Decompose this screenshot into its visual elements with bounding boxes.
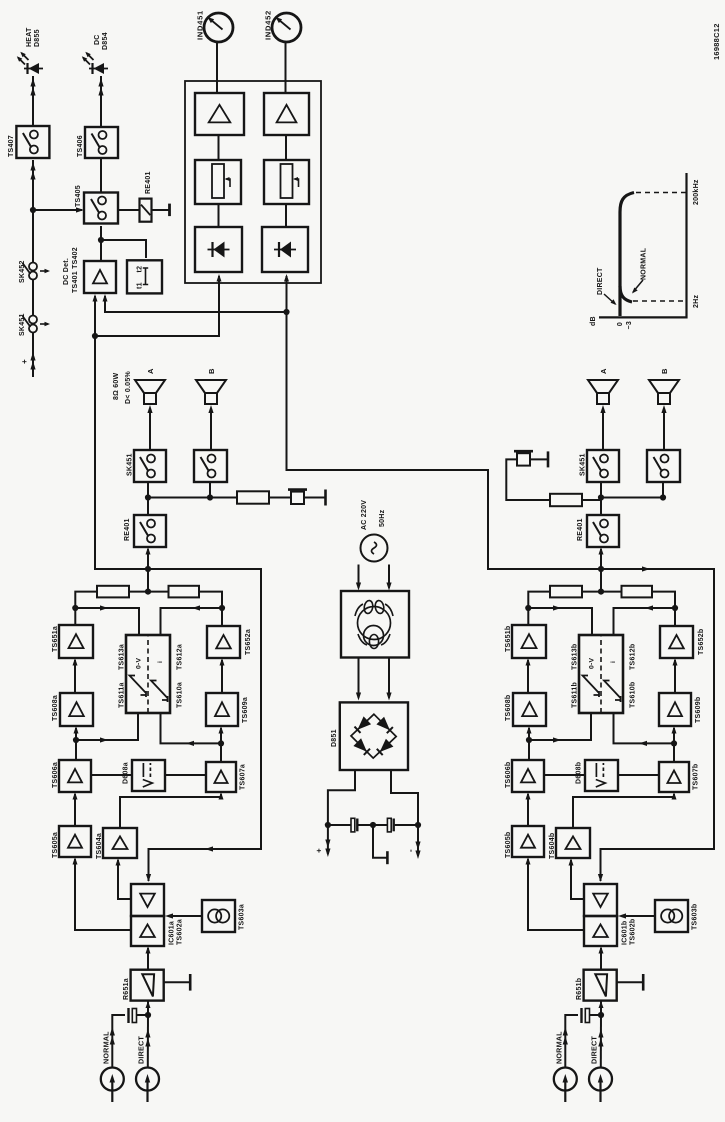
AC source	[361, 535, 388, 562]
svg-text:DC Det.: DC Det.	[63, 258, 70, 285]
wire TS406 to LED DC	[98, 76, 103, 127]
node filter top	[325, 822, 331, 828]
switch TS407	[16, 126, 49, 158]
wire pot to amp a	[218, 135, 220, 160]
wire tap to TS612a right lower	[161, 605, 223, 635]
resistor emitter lower (b)	[622, 586, 653, 598]
wire IC601a to TS605a	[73, 857, 132, 930]
svg-text:HEAT: HEAT	[26, 27, 33, 47]
node feedback lower (a)	[219, 605, 225, 611]
wire supply rail mid	[32, 280, 34, 316]
switch contact SK452 rail	[23, 263, 51, 280]
wire R651b ground stub	[617, 974, 644, 991]
wire filter rail	[328, 824, 351, 826]
svg-text:TS609b: TS609b	[695, 697, 702, 723]
speaker A (b)	[588, 380, 618, 404]
wire TS405 to TS406	[100, 158, 102, 193]
svg-text:dB: dB	[590, 316, 597, 326]
power transistor TS651b	[512, 625, 546, 658]
svg-text:B: B	[207, 368, 216, 374]
svg-text:AC 220V: AC 220V	[361, 500, 368, 530]
amplifier TS606b	[512, 760, 544, 792]
svg-text:TS611a: TS611a	[119, 682, 126, 708]
LED HEAT D855	[17, 52, 43, 74]
svg-text:SK452: SK452	[19, 260, 26, 283]
amplifier meter a	[195, 93, 244, 135]
input socket DIRECT (b)	[589, 1068, 612, 1103]
op-amp IC601a inverting stage	[131, 884, 164, 916]
wire relay coil ground	[152, 204, 170, 217]
switch speaker B (a)	[194, 450, 227, 482]
wire supply ground	[373, 825, 387, 864]
amplifier TS604a	[103, 828, 137, 858]
wire TS607a to TS609a	[219, 726, 224, 762]
svg-text:IC601b: IC601b	[622, 921, 629, 945]
switch SK451 (a)	[134, 450, 166, 482]
op-amp IC601a input stage	[131, 916, 164, 946]
wire bus to switch B (b)	[601, 482, 663, 498]
svg-text:B: B	[660, 368, 669, 374]
svg-text:IC601a: IC601a	[169, 921, 176, 945]
node TS607b output	[671, 740, 677, 746]
svg-text:TS608a: TS608a	[52, 695, 59, 721]
svg-text:IND452: IND452	[264, 10, 273, 40]
svg-text:TS405: TS405	[75, 185, 82, 207]
relay contact RE401 (b)	[587, 515, 619, 547]
rectifier meter b	[262, 227, 308, 272]
wire DIRECT input (a)	[145, 1015, 150, 1068]
wire SK451 to speaker A (b)	[600, 405, 605, 450]
bias regulator D608a	[132, 760, 165, 791]
wire zobel end (a)	[304, 490, 326, 506]
svg-text:TS609a: TS609a	[242, 697, 249, 723]
capacitor filter C1	[351, 818, 357, 832]
wire AC to transformer upper	[356, 565, 361, 591]
wire pot to amp b	[285, 135, 287, 160]
svg-text:TS612b: TS612b	[630, 644, 637, 670]
wire TS602a to TS604a	[116, 858, 132, 899]
svg-text:TS604b: TS604b	[549, 833, 556, 859]
potentiometer meter b	[264, 160, 309, 204]
wire AC to transformer lower	[386, 565, 391, 591]
svg-text:SK451: SK451	[19, 313, 26, 336]
svg-text:-: -	[406, 849, 415, 852]
wire transformer to rectifier upper	[356, 658, 361, 701]
svg-text:t1: t1	[137, 282, 144, 289]
bias regulator D608b	[585, 760, 618, 791]
curve DIRECT response	[620, 193, 634, 317]
resistor zobel (a)	[237, 491, 269, 503]
meter IND452	[272, 13, 301, 42]
amplifier TS605b	[512, 826, 544, 857]
node filter bottom	[415, 822, 421, 828]
curve NORMAL response	[620, 286, 632, 302]
svg-text:TS608b: TS608b	[505, 695, 512, 721]
amplifier TS606a	[59, 760, 91, 792]
bridge rectifier D851	[340, 702, 408, 770]
input socket NORMAL (a)	[101, 1068, 124, 1103]
svg-text:IND451: IND451	[196, 10, 205, 40]
potentiometer meter a	[195, 160, 241, 204]
amplifier TS609b	[659, 693, 691, 726]
amplifier TS608a	[60, 693, 93, 726]
node output rail (a)	[145, 588, 151, 594]
node feedback lower (b)	[672, 605, 678, 611]
resistor emitter lower (a)	[169, 586, 200, 598]
wire zobel mid (a)	[269, 497, 291, 499]
meter IND451	[204, 13, 233, 42]
svg-text:TS610b: TS610b	[630, 682, 637, 708]
capacitor input coupling (b)	[582, 1008, 602, 1023]
capacitor zobel (a)	[288, 490, 307, 504]
wire TS608a to TS651a	[73, 658, 78, 693]
wire TS606a to TS608a	[74, 726, 79, 760]
svg-text:D608a: D608a	[123, 762, 130, 784]
wire supply to TS405	[33, 207, 84, 212]
svg-text:NORMAL: NORMAL	[641, 247, 648, 280]
node feedback upper (b)	[525, 605, 531, 611]
block TS603a	[202, 900, 235, 932]
wire TS609b to TS652b	[673, 658, 678, 693]
LED DC D854	[82, 52, 108, 74]
svg-text:R651a: R651a	[123, 978, 130, 1000]
svg-text:TS611b: TS611b	[572, 682, 579, 708]
wire R651a ground stub	[164, 974, 191, 991]
wire transformer to rectifier lower	[386, 658, 391, 701]
block timer t1 t2	[127, 260, 162, 293]
wire SK451 to speaker A (a)	[147, 405, 152, 450]
wire tap to TS611b left upper	[529, 713, 591, 743]
svg-text:DIRECT: DIRECT	[597, 267, 604, 295]
wire TS606b to D608b	[544, 774, 585, 776]
power transistor TS651a	[59, 625, 93, 658]
svg-text:TS605b: TS605b	[505, 832, 512, 858]
wire rectifier to pot a	[218, 204, 220, 227]
capacitor input coupling (a)	[129, 1008, 149, 1023]
wire rectifier to pot b	[285, 204, 287, 227]
svg-text:SK451: SK451	[580, 453, 587, 476]
wire TS407 to LED HEAT	[30, 76, 35, 126]
wire NORMAL input (b)	[563, 1015, 578, 1068]
amplifier meter b	[264, 93, 309, 135]
power transistor TS652b	[660, 626, 693, 658]
node supply to TS405	[30, 207, 36, 213]
svg-text:0-V: 0-V	[136, 657, 143, 669]
wire amp a to meter IND451	[216, 43, 218, 93]
svg-text:0-V: 0-V	[589, 657, 596, 669]
svg-text:TS613b: TS613b	[572, 644, 579, 670]
svg-text:R651b: R651b	[576, 978, 583, 1000]
svg-text:200kHz: 200kHz	[693, 179, 700, 205]
node sense b	[283, 309, 289, 315]
svg-text:DC: DC	[94, 34, 101, 45]
wire D608b to TS607b	[618, 774, 659, 776]
svg-text:SK451: SK451	[127, 453, 134, 476]
wire sense b to DC detector	[103, 294, 287, 312]
svg-text:TS602b: TS602b	[630, 919, 637, 945]
wire tap to TS612b right lower	[614, 605, 676, 635]
svg-text:i: i	[610, 661, 617, 663]
svg-text:TS603b: TS603b	[692, 904, 699, 930]
wire amp b to meter IND452	[285, 43, 287, 93]
wire sense a to meter rectifier	[95, 274, 222, 336]
svg-text:DIRECT: DIRECT	[589, 1036, 598, 1064]
wire IC601b to TS605b	[526, 857, 585, 930]
svg-text:TS605a: TS605a	[52, 832, 59, 858]
wire sense b to meter rectifier	[284, 274, 289, 312]
svg-text:TS607b: TS607b	[693, 764, 700, 790]
wire tap to TS613a right upper	[75, 605, 139, 635]
capacitor filter C2	[387, 818, 393, 832]
resistor emitter upper (b)	[550, 586, 582, 598]
svg-text:t2: t2	[137, 266, 144, 273]
svg-text:TS652b: TS652b	[698, 629, 705, 655]
svg-text:16988C12: 16988C12	[712, 23, 721, 60]
svg-text:50Hz: 50Hz	[379, 509, 386, 527]
svg-text:DIRECT: DIRECT	[136, 1036, 145, 1064]
wire TS603b to IC601b	[618, 913, 655, 918]
svg-text:i: i	[157, 661, 164, 663]
op-amp IC601b inverting stage	[584, 884, 617, 916]
svg-text:TS604a: TS604a	[96, 833, 103, 859]
wire input to R651a	[146, 1001, 151, 1015]
svg-text:0: 0	[617, 322, 624, 326]
wire input to R651b	[599, 1001, 604, 1015]
svg-text:RE401: RE401	[145, 171, 152, 194]
node TS606b output	[526, 737, 532, 743]
wire TS405 to relay coil	[118, 209, 140, 211]
wire rail to relay contact (a)	[146, 547, 151, 592]
resistor zobel (b)	[550, 494, 582, 506]
speaker A (a)	[135, 380, 165, 404]
svg-text:8Ω 60W: 8Ω 60W	[113, 373, 120, 400]
amplifier TS605a	[59, 826, 91, 857]
svg-text:TS612a: TS612a	[177, 644, 184, 670]
switch TS406	[85, 127, 118, 158]
wire switch to speaker B (b)	[661, 405, 666, 450]
op-amp IC601b input stage	[584, 916, 617, 946]
block TS603b	[655, 900, 688, 932]
node TS607a output	[218, 740, 224, 746]
wire TS609a to TS652a	[220, 658, 225, 693]
dashed marker 2Hz	[633, 300, 687, 302]
wire TS608b to TS651b	[526, 658, 531, 693]
wire TS606a to D608a	[91, 774, 132, 776]
wire relay to SK451 (b)	[600, 482, 602, 515]
wire DIRECT input (b)	[598, 1015, 603, 1068]
power transistor TS652a	[207, 626, 240, 658]
wire TS652a to output rail	[199, 592, 222, 626]
graph axes frequency response	[599, 173, 687, 317]
wire TS651a to output rail	[75, 592, 97, 625]
wire rail middle (a)	[129, 591, 169, 593]
node input junction (a)	[145, 1012, 151, 1018]
wire TS605b to TS606b	[526, 792, 531, 826]
wire rail to relay contact (b)	[599, 547, 604, 592]
svg-text:D608b: D608b	[576, 762, 583, 784]
wire tap to TS611b left lower	[614, 713, 675, 746]
svg-text:2Hz: 2Hz	[693, 295, 700, 308]
svg-text:TS602a: TS602a	[177, 919, 184, 945]
input socket DIRECT (a)	[136, 1068, 159, 1103]
wire switch to speaker B (a)	[208, 405, 213, 450]
wire TS652b to output rail	[652, 592, 675, 626]
wire rectifier plus out	[328, 770, 355, 823]
wire rail middle (b)	[582, 591, 622, 593]
label NORMAL graph	[632, 247, 648, 293]
svg-text:TS610a: TS610a	[177, 682, 184, 708]
wire bus to switch B (a)	[148, 482, 210, 498]
svg-text:TS651b: TS651b	[505, 626, 512, 652]
amplifier TS607a	[206, 762, 236, 792]
svg-text:TS651a: TS651a	[52, 626, 59, 652]
wire zobel end (b)	[530, 451, 548, 467]
switch contact SK451 rail	[23, 316, 51, 333]
wire rectifier minus out	[391, 770, 418, 823]
wire TS651b to output rail	[528, 592, 550, 625]
wire zobel corner (b)	[506, 459, 550, 500]
wire TS603a to IC601a	[165, 913, 202, 918]
wire branch to timer	[101, 240, 146, 258]
rectifier meter a	[195, 227, 242, 272]
svg-text:D855: D855	[34, 29, 41, 47]
svg-text:TS603a: TS603a	[239, 904, 246, 930]
wire relay to SK451 (a)	[147, 482, 149, 515]
label DIRECT graph	[597, 267, 617, 305]
resistor emitter upper (a)	[97, 586, 129, 598]
block DC detector TS401 TS402	[84, 261, 116, 293]
wire supply minus arrow	[415, 825, 420, 859]
wire TS604a to TS607a	[120, 792, 224, 828]
switch SK451 (b)	[587, 450, 619, 482]
wire feedback loop (a)	[146, 569, 261, 882]
node sense a	[92, 333, 98, 339]
svg-text:RE401: RE401	[124, 518, 131, 541]
wire D608a to TS607a	[165, 774, 206, 776]
node filter mid	[370, 822, 376, 828]
node amplifier output (a)	[145, 566, 151, 572]
output stage block TS610b-TS613b	[579, 635, 623, 713]
wire sense channel b riser	[287, 312, 602, 569]
svg-text:D851: D851	[331, 729, 338, 747]
wire tap to TS613b right upper	[528, 605, 592, 635]
svg-text:NORMAL: NORMAL	[554, 1031, 563, 1064]
amplifier TS604b	[556, 828, 590, 858]
wire supply plus arrow	[325, 825, 330, 857]
node output rail (b)	[598, 588, 604, 594]
svg-text:NORMAL: NORMAL	[101, 1031, 110, 1064]
output stage block TS610a-TS613a	[126, 635, 170, 713]
node input junction (b)	[598, 1012, 604, 1018]
wire TS602b to TS604b	[569, 858, 585, 899]
node speaker bus (a)	[145, 494, 151, 500]
wire TS607b to TS609b	[672, 726, 677, 762]
svg-text:TS401 TS402: TS401 TS402	[72, 247, 79, 293]
svg-text:+: +	[315, 848, 324, 853]
wire tap to TS611a left upper	[76, 713, 138, 743]
svg-text:TS407: TS407	[8, 135, 15, 157]
node feedback upper (a)	[72, 605, 78, 611]
wire TS606b to TS608b	[527, 726, 532, 760]
amplifier TS609a	[206, 693, 238, 726]
svg-text:D854: D854	[102, 32, 109, 50]
switch speaker B (b)	[647, 450, 680, 482]
wire bus to zobel (a)	[210, 497, 237, 499]
svg-text:TS613a: TS613a	[119, 644, 126, 670]
wire DC detector to TS405	[100, 226, 102, 261]
relay coil RE401	[140, 199, 152, 222]
capacitor zobel (b)	[514, 451, 533, 465]
svg-text:TS607a: TS607a	[240, 764, 247, 790]
svg-text:A: A	[599, 368, 608, 374]
amplifier TS608b	[513, 693, 546, 726]
potentiometer R651a	[131, 970, 164, 1001]
dashed marker 200kHz	[636, 192, 687, 194]
potentiometer R651b	[584, 970, 617, 1001]
wire supply rail right	[30, 160, 35, 263]
wire NORMAL input (a)	[110, 1015, 125, 1068]
node amplifier output (b)	[598, 566, 604, 572]
switch TS405	[84, 193, 118, 224]
wire R651b to IC601b	[599, 946, 604, 970]
wire supply rail left	[30, 333, 35, 377]
block meter driver box	[185, 81, 321, 283]
speaker B (a)	[196, 380, 226, 404]
node DC detector output	[98, 237, 104, 243]
wire bus to zobel (b)	[582, 499, 601, 501]
wire sense channel a to DC detector	[93, 294, 149, 569]
speaker B (b)	[649, 380, 679, 404]
node switch B (a)	[207, 494, 213, 500]
svg-text:RE401: RE401	[577, 518, 584, 541]
node TS606a output	[73, 737, 79, 743]
wire R651a to IC601a	[146, 946, 151, 970]
svg-text:TS606a: TS606a	[52, 762, 59, 788]
relay contact RE401 (a)	[134, 515, 166, 547]
wire TS605a to TS606a	[73, 792, 78, 826]
wire feedback loop (b)	[598, 566, 714, 882]
input socket NORMAL (b)	[554, 1068, 577, 1103]
svg-text:A: A	[146, 368, 155, 374]
wire TS604b to TS607b	[573, 792, 677, 828]
transformer T851	[341, 591, 409, 658]
wire tap to TS611a left lower	[161, 713, 222, 746]
svg-text:TS652a: TS652a	[245, 629, 252, 655]
svg-text:TS406: TS406	[77, 135, 84, 157]
svg-text:TS606b: TS606b	[505, 762, 512, 788]
svg-text:D< 0.05%: D< 0.05%	[125, 371, 132, 404]
svg-text:−3: −3	[626, 321, 633, 329]
amplifier TS607b	[659, 762, 689, 792]
node speaker bus (b)	[598, 494, 604, 500]
node switch B (b)	[660, 494, 666, 500]
svg-text:+: +	[20, 359, 29, 364]
